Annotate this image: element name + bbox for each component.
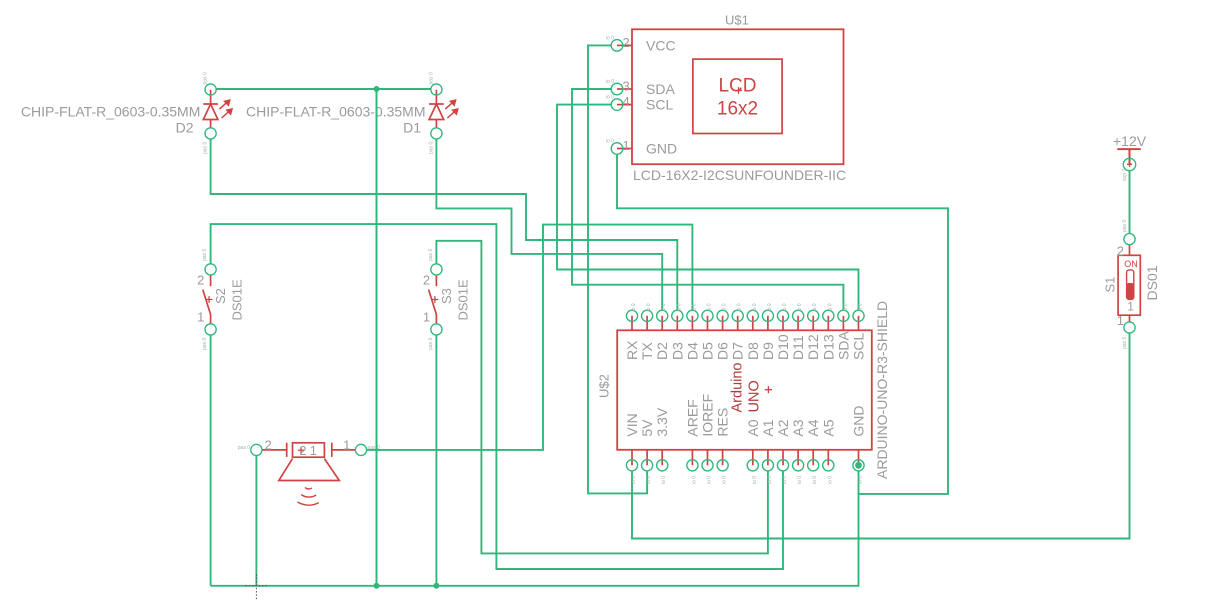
- switch S3 symbol: [429, 275, 437, 324]
- svg-text:io 0: io 0: [646, 476, 652, 484]
- pin U$2.D6 circle: [717, 310, 728, 321]
- svg-text:io 0: io 0: [797, 476, 803, 484]
- svg-text:io 0: io 0: [812, 303, 818, 311]
- svg-text:io 0: io 0: [858, 476, 864, 484]
- pin U$2.3.3V circle: [657, 460, 668, 471]
- pin U$2.D7 stub (top): [737, 316, 739, 331]
- svg-text:1: 1: [623, 138, 630, 153]
- svg-text:D10: D10: [775, 334, 791, 360]
- pin D2.1 (bottom): [205, 128, 216, 139]
- LED D1 symbol: [429, 90, 444, 128]
- pin U$2.D10 stub (top): [782, 316, 784, 331]
- pin U$2.D11 circle: [793, 310, 804, 321]
- pin U$2.A3 stub (bottom): [797, 450, 799, 466]
- wire net S2.1 to ground rail: [210, 335, 212, 586]
- pin U$2.A4 stub (bottom): [812, 450, 814, 466]
- svg-text:4: 4: [623, 94, 630, 109]
- wire net D1 cathode to U$2 D2: [436, 139, 662, 310]
- svg-text:D6: D6: [715, 342, 731, 360]
- svg-text:D2: D2: [176, 120, 194, 136]
- pin U$2.A4 circle: [808, 460, 819, 471]
- svg-text:io 0: io 0: [737, 303, 743, 311]
- svg-text:3.3V: 3.3V: [654, 407, 670, 436]
- svg-text:A5: A5: [820, 419, 836, 436]
- svg-text:RES: RES: [715, 408, 731, 437]
- pin U$2.D4 stub (top): [691, 316, 693, 331]
- pin speaker.2 (left): [251, 444, 262, 455]
- pin U$2.SCL circle: [853, 310, 864, 321]
- svg-text:IOREF: IOREF: [700, 394, 716, 437]
- svg-text:2: 2: [264, 438, 271, 453]
- pin U$2.A2 circle: [777, 460, 788, 471]
- pin S1.1 circle: [1124, 322, 1135, 333]
- pin U$2.5V circle: [642, 460, 653, 471]
- pin U$2.GND circle: [853, 460, 864, 471]
- svg-text:2 1: 2 1: [300, 444, 317, 458]
- svg-text:3: 3: [623, 79, 630, 94]
- svg-text:io 0: io 0: [722, 476, 728, 484]
- pin +12V origin cross: [1127, 162, 1132, 167]
- wire net U$1 SCL to U$2 SCL: [557, 105, 859, 311]
- svg-text:pas 0: pas 0: [428, 249, 434, 261]
- svg-text:sup 0: sup 0: [1122, 169, 1128, 181]
- svg-text:SCL: SCL: [851, 333, 867, 360]
- junction ground rail / S3.1: [433, 583, 439, 589]
- IC U$2 Arduino box: [617, 330, 872, 450]
- pin U$2.D12 stub (top): [812, 316, 814, 331]
- pin D1.2 (top): [431, 84, 442, 95]
- svg-text:2: 2: [623, 35, 630, 50]
- pin U$2.D13 circle: [823, 310, 834, 321]
- svg-text:io 0: io 0: [782, 476, 788, 484]
- svg-text:SCL: SCL: [646, 97, 673, 113]
- svg-text:io 0: io 0: [752, 303, 758, 311]
- wire net LED anodes rail: [216, 88, 430, 90]
- svg-text:A1: A1: [760, 419, 776, 436]
- supply symbol +12V: [1117, 149, 1140, 164]
- svg-text:AREF: AREF: [684, 399, 700, 436]
- svg-text:LCD: LCD: [718, 76, 756, 97]
- svg-text:DS01E: DS01E: [230, 279, 245, 321]
- wire net D2 cathode to U$2 D3: [211, 139, 678, 310]
- pin U$2.RES stub (bottom): [722, 450, 724, 466]
- pin U$2.A1 circle: [762, 460, 773, 471]
- svg-text:D12: D12: [805, 334, 821, 360]
- wire net speaker.1 to U$2 D4: [367, 225, 693, 450]
- svg-text:pas 0: pas 0: [238, 445, 250, 451]
- junction ground rail / LED vertical: [374, 583, 380, 589]
- svg-text:pas 0: pas 0: [428, 72, 434, 84]
- svg-text:io 0: io 0: [827, 303, 833, 311]
- svg-text:LCD-16X2-I2CSUNFOUNDER-IIC: LCD-16X2-I2CSUNFOUNDER-IIC: [633, 167, 846, 183]
- pin U$2.VIN stub (bottom): [631, 450, 633, 466]
- svg-text:io 0: io 0: [606, 95, 614, 101]
- svg-text:VIN: VIN: [624, 413, 640, 436]
- svg-text:S1: S1: [1103, 277, 1118, 293]
- svg-text:U$1: U$1: [725, 13, 749, 28]
- svg-text:A4: A4: [805, 419, 821, 436]
- svg-text:GND: GND: [851, 405, 867, 436]
- pin U$2.A0 stub (bottom): [752, 450, 754, 466]
- wire net speaker.2 to ground rail: [255, 456, 257, 586]
- svg-text:UNO: UNO: [747, 380, 763, 412]
- svg-text:io 0: io 0: [797, 303, 803, 311]
- svg-text:S2: S2: [213, 288, 228, 304]
- pin D1.1 (bottom): [431, 128, 442, 139]
- svg-text:pas 0: pas 0: [1122, 220, 1128, 232]
- pin U$2.GND stub (bottom): [858, 450, 860, 466]
- pin U$2.AREF circle: [687, 460, 698, 471]
- wire net S3.2 to U$2 A1: [436, 241, 768, 554]
- svg-text:D4: D4: [684, 342, 700, 360]
- pin U$1.SCL circle: [611, 99, 623, 111]
- svg-text:2: 2: [423, 273, 430, 288]
- svg-text:io 0: io 0: [812, 476, 818, 484]
- pin U$2.D9 circle: [762, 310, 773, 321]
- svg-text:pas 0: pas 0: [202, 338, 208, 350]
- pin U$2.A5 stub (bottom): [827, 450, 829, 466]
- junction LED rail / vertical: [374, 86, 380, 92]
- pin U$2.5V stub (bottom): [646, 450, 648, 466]
- pin U$2.SDA circle: [838, 310, 849, 321]
- pin S1.2 circle: [1124, 234, 1135, 245]
- speaker origin cross: [298, 447, 304, 453]
- pin U$2.RX stub (top): [631, 316, 633, 331]
- pin U$2.D3 circle: [672, 310, 683, 321]
- pin U$2.TX circle: [642, 310, 653, 321]
- IC U$1 LCD box: [632, 29, 844, 164]
- pin S3.1 (bottom): [431, 324, 442, 335]
- svg-text:D7: D7: [730, 342, 746, 360]
- svg-text:TX: TX: [639, 341, 655, 360]
- U$1 origin cross: [735, 87, 742, 94]
- wire net ground rail: [211, 471, 859, 586]
- svg-text:io 0: io 0: [722, 303, 728, 311]
- pin U$2.SCL stub (top): [858, 316, 860, 331]
- origin crosshair marker: [246, 575, 269, 601]
- pin S3.2 (top): [431, 264, 442, 275]
- pin U$1.SCL stub: [617, 104, 632, 106]
- svg-text:pas 0: pas 0: [202, 249, 208, 261]
- svg-text:2: 2: [197, 273, 204, 288]
- svg-text:io 0: io 0: [752, 476, 758, 484]
- wire net +12V to S1.2: [1129, 171, 1131, 234]
- svg-text:GND: GND: [646, 141, 677, 157]
- pin U$2.D6 stub (top): [722, 316, 724, 331]
- svg-text:D9: D9: [760, 342, 776, 360]
- switch S1 box: [1118, 255, 1140, 315]
- pin U$2.D5 circle: [702, 310, 713, 321]
- svg-text:+12V: +12V: [1113, 133, 1147, 149]
- svg-text:io 0: io 0: [606, 139, 614, 145]
- wire net S3.1 to ground rail: [435, 335, 437, 586]
- svg-text:io 0: io 0: [858, 303, 864, 311]
- wire rail-to-ground vertical (overlay over label): [376, 89, 378, 586]
- wire net U$2 VIN to S1.1: [632, 333, 1130, 539]
- pin U$2.D11 stub (top): [797, 316, 799, 331]
- pin U$2.A3 circle: [793, 460, 804, 471]
- pin U$2.A5 circle: [823, 460, 834, 471]
- pin U$2.D7 circle: [732, 310, 743, 321]
- svg-text:io 0: io 0: [646, 303, 652, 311]
- svg-text:D1: D1: [403, 120, 421, 136]
- switch S2 symbol: [203, 275, 211, 324]
- switch S1 pin stubs: [1129, 245, 1131, 323]
- switch S3 origin cross: [432, 296, 439, 303]
- pin U$2.D5 stub (top): [707, 316, 709, 331]
- svg-text:io 0: io 0: [606, 79, 614, 85]
- svg-text:io 0: io 0: [707, 303, 713, 311]
- svg-text:io 0: io 0: [691, 303, 697, 311]
- svg-text:1: 1: [1117, 313, 1124, 328]
- pin U$2.IOREF stub (bottom): [707, 450, 709, 466]
- svg-text:io 0: io 0: [782, 303, 788, 311]
- svg-text:io 0: io 0: [767, 303, 773, 311]
- pin U$1.GND circle: [611, 143, 623, 155]
- wire net S2.2 to U$2 A2: [211, 224, 783, 569]
- pin D2.2 (top): [205, 84, 216, 95]
- pin U$2.D2 circle: [657, 310, 668, 321]
- svg-text:ARDUINO-UNO-R3-SHIELD: ARDUINO-UNO-R3-SHIELD: [874, 301, 890, 479]
- svg-text:pas 0: pas 0: [428, 142, 434, 154]
- pin U$1.SDA circle: [611, 83, 623, 95]
- svg-text:S3: S3: [439, 288, 454, 304]
- pin U$2.D10 circle: [777, 310, 788, 321]
- svg-text:A2: A2: [775, 419, 791, 436]
- pin U$2.D9 stub (top): [767, 316, 769, 331]
- svg-text:D3: D3: [669, 342, 685, 360]
- pin speaker.1 (right): [355, 444, 366, 455]
- svg-text:D11: D11: [790, 335, 806, 360]
- switch S1 slider knob: [1127, 270, 1134, 300]
- pin S2.1 (bottom): [205, 324, 216, 335]
- pin U$2.D3 stub (top): [676, 316, 678, 331]
- pin U$2.A2 stub (bottom): [782, 450, 784, 466]
- pin U$2.3.3V stub (bottom): [661, 450, 663, 466]
- pin U$1.GND stub: [617, 148, 632, 150]
- svg-text:pas 0: pas 0: [428, 338, 434, 350]
- pin U$2.D8 circle: [747, 310, 758, 321]
- svg-text:io 0: io 0: [691, 476, 697, 484]
- pin U$1.VCC stub: [617, 44, 632, 46]
- svg-text:pas 0: pas 0: [203, 72, 209, 84]
- pin U$2.SDA stub (top): [842, 316, 844, 331]
- U$2 origin cross: [765, 386, 772, 393]
- pin U$2.RES circle: [717, 460, 728, 471]
- wire net U$1 GND to ground: [617, 154, 948, 494]
- junction at U$2 GND pin: [855, 462, 862, 469]
- svg-text:VCC: VCC: [646, 37, 676, 53]
- pin U$2.IOREF circle: [702, 460, 713, 471]
- LED D1 emission arrows: [445, 100, 458, 118]
- speaker symbol: [262, 443, 355, 481]
- pin U$2.D13 stub (top): [827, 316, 829, 331]
- svg-text:D13: D13: [820, 334, 836, 360]
- svg-text:A3: A3: [790, 419, 806, 436]
- pin U$2.TX stub (top): [646, 316, 648, 331]
- svg-text:Arduino: Arduino: [730, 363, 746, 413]
- svg-text:D8: D8: [745, 342, 761, 360]
- svg-text:D2: D2: [654, 342, 670, 360]
- svg-text:io 0: io 0: [842, 303, 848, 311]
- svg-text:SDA: SDA: [646, 81, 675, 97]
- wire net U$1 VCC to U$2 5V: [588, 45, 647, 493]
- pin U$2.D8 stub (top): [752, 316, 754, 331]
- svg-text:io 0: io 0: [707, 476, 713, 484]
- svg-text:DS01: DS01: [1144, 265, 1160, 300]
- pin U$1.VCC circle: [611, 40, 623, 52]
- svg-text:RX: RX: [624, 340, 640, 360]
- svg-text:io 0: io 0: [631, 303, 637, 311]
- svg-text:io 0: io 0: [676, 303, 682, 311]
- pin +12V circle: [1123, 158, 1135, 170]
- LCD display inner box: [693, 59, 782, 133]
- svg-text:pas 0: pas 0: [368, 445, 380, 451]
- svg-text:pas 0: pas 0: [203, 142, 209, 154]
- speaker sound arcs: [297, 488, 319, 506]
- svg-text:io 0: io 0: [767, 476, 773, 484]
- svg-text:pas 0: pas 0: [1122, 337, 1128, 349]
- switch S2 origin cross: [206, 296, 213, 303]
- svg-text:io 0: io 0: [631, 476, 637, 484]
- svg-text:5V: 5V: [639, 419, 655, 437]
- pin U$2.RX circle: [626, 310, 637, 321]
- svg-text:DS01E: DS01E: [455, 279, 470, 321]
- svg-text:1: 1: [1127, 300, 1134, 314]
- svg-text:io 0: io 0: [661, 476, 667, 484]
- svg-text:1: 1: [197, 310, 204, 325]
- svg-text:U$2: U$2: [597, 374, 612, 398]
- pin S2.2 (top): [205, 264, 216, 275]
- pin U$2.D12 circle: [808, 310, 819, 321]
- pin U$2.D2 stub (top): [661, 316, 663, 331]
- svg-text:CHIP-FLAT-R_0603-0.35MM: CHIP-FLAT-R_0603-0.35MM: [21, 104, 200, 120]
- svg-text:SDA: SDA: [835, 331, 851, 360]
- svg-text:io 0: io 0: [606, 35, 614, 41]
- pin U$2.A1 stub (bottom): [767, 450, 769, 466]
- wire net U$1 SDA to U$2 SDA: [572, 89, 843, 310]
- pin U$2.D4 circle: [687, 310, 698, 321]
- pin U$1.SDA stub: [617, 88, 632, 90]
- svg-text:2: 2: [1117, 244, 1124, 259]
- svg-text:A0: A0: [745, 419, 761, 436]
- pin U$2.VIN circle: [626, 460, 637, 471]
- pin U$2.AREF stub (bottom): [691, 450, 693, 466]
- svg-text:D5: D5: [700, 342, 716, 360]
- svg-text:io 0: io 0: [661, 303, 667, 311]
- svg-text:ON: ON: [1124, 259, 1138, 269]
- pin U$2.A0 circle: [747, 460, 758, 471]
- wire net rail-to-ground vertical: [376, 89, 378, 586]
- svg-text:io 0: io 0: [827, 476, 833, 484]
- LED D2 emission arrows: [219, 100, 232, 118]
- svg-text:1: 1: [343, 438, 350, 453]
- svg-text:16x2: 16x2: [717, 99, 758, 120]
- svg-text:1: 1: [423, 310, 430, 325]
- svg-text:CHIP-FLAT-R_0603-0.35MM: CHIP-FLAT-R_0603-0.35MM: [246, 104, 425, 120]
- LED D2 symbol: [203, 90, 218, 128]
